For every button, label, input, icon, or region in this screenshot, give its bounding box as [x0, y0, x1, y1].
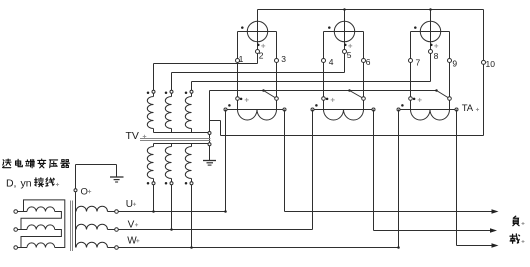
svg-text:9: 9	[452, 59, 457, 69]
svg-text:yn: yn	[21, 178, 32, 190]
svg-text:6: 6	[366, 57, 371, 67]
svg-text:2: 2	[259, 51, 264, 61]
svg-text:7: 7	[416, 58, 421, 68]
svg-text:10: 10	[486, 59, 496, 69]
svg-text:5: 5	[347, 50, 352, 60]
svg-text:U: U	[126, 199, 133, 210]
svg-text:W: W	[127, 235, 137, 246]
svg-text:1: 1	[239, 54, 244, 64]
svg-text:4: 4	[329, 57, 334, 67]
svg-text:8: 8	[434, 51, 439, 61]
svg-text:V: V	[128, 219, 135, 230]
svg-text:TV: TV	[126, 130, 139, 142]
svg-text:,: ,	[14, 178, 17, 190]
svg-text:TA: TA	[462, 103, 474, 114]
svg-text:O: O	[81, 186, 88, 197]
svg-text:3: 3	[281, 54, 286, 64]
